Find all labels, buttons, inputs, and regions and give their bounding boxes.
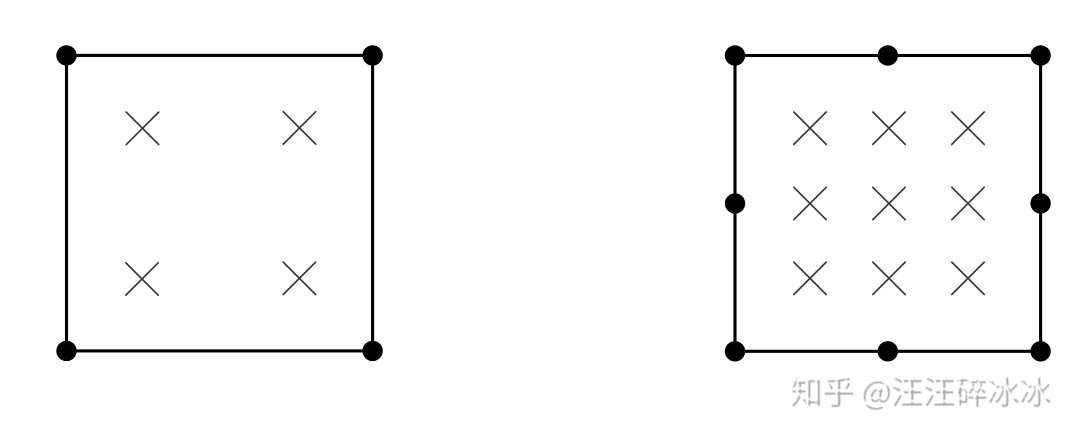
node 4 (left-middle, element 2) bbox=[725, 193, 745, 213]
integration point x5 (element 2, middle-center) bbox=[873, 187, 905, 219]
integration point x7 (element 2, bottom-left) bbox=[794, 262, 826, 294]
integration point x9 (element 2, bottom-right) bbox=[952, 262, 984, 294]
integration point x6 (element 2, middle-right) bbox=[952, 187, 984, 219]
node 3 (top-right corner, element 2) bbox=[1030, 45, 1050, 65]
node 8 (bottom-right corner, element 2) bbox=[1030, 341, 1050, 361]
integration point x2 (element 2, top-center) bbox=[873, 112, 905, 144]
integration point x3 (element 1, bottom-left) bbox=[126, 263, 158, 295]
node 6 (bottom-left corner, element 2) bbox=[725, 341, 745, 361]
watermark: Zhihu 知乎 @汪汪碎冰冰 (embossed) bbox=[0, 0, 1, 1]
integration point x8 (element 2, bottom-center) bbox=[873, 262, 905, 294]
integration point x1 (element 2, top-left) bbox=[794, 112, 826, 144]
node 2 (top-middle, element 2) bbox=[878, 45, 898, 65]
node 4 (bottom-right corner, element 1) bbox=[362, 341, 382, 361]
node 5 (right-middle, element 2) bbox=[1030, 193, 1050, 213]
node 1 (top-left corner, element 1) bbox=[56, 45, 76, 65]
integration point x4 (element 2, middle-left) bbox=[794, 187, 826, 219]
node 2 (top-right corner, element 1) bbox=[362, 45, 382, 65]
integration point x1 (element 1, top-left) bbox=[126, 112, 158, 144]
element 2 (8-node quad) outline bbox=[735, 56, 1041, 352]
element 1 (4-node quad) outline bbox=[67, 55, 373, 351]
node 1 (top-left corner, element 2) bbox=[725, 45, 745, 65]
integration point x2 (element 1, top-right) bbox=[283, 112, 315, 144]
node 7 (bottom-middle, element 2) bbox=[878, 341, 898, 361]
integration point x4 (element 1, bottom-right) bbox=[283, 262, 315, 294]
integration point x3 (element 2, top-right) bbox=[952, 112, 984, 144]
node 3 (bottom-left corner, element 1) bbox=[56, 341, 76, 361]
